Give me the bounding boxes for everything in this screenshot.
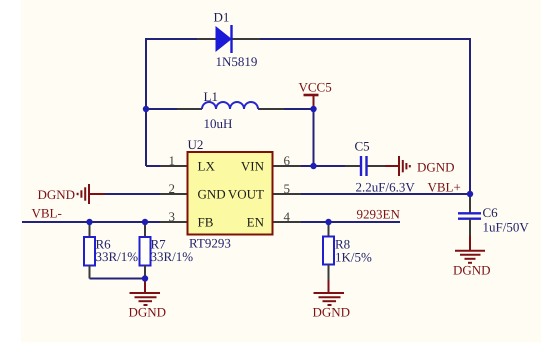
- wire pin5 to VBL+: [300, 193, 470, 195]
- resistor R6: [84, 222, 138, 279]
- resistor R8: [323, 222, 372, 280]
- svg-text:VBL+: VBL+: [428, 180, 461, 195]
- capacitor C6: [458, 194, 529, 236]
- junction (VBL+ / C6): [467, 191, 473, 197]
- inductor L1 left pin: [177, 108, 202, 110]
- svg-text:DGND: DGND: [417, 160, 455, 175]
- svg-text:L1: L1: [204, 89, 218, 104]
- wire pin2 from DGND: [105, 193, 161, 195]
- svg-text:2.2uF/6.3V: 2.2uF/6.3V: [356, 180, 416, 195]
- wire L1 left: [146, 108, 177, 110]
- junction (R7 / VBL- wire): [142, 219, 148, 225]
- svg-text:9293EN: 9293EN: [357, 207, 401, 222]
- junction (VCC5 / L1): [310, 106, 316, 112]
- svg-text:FB: FB: [198, 215, 214, 230]
- wire right vertical: [469, 38, 471, 194]
- svg-text:6: 6: [284, 153, 291, 168]
- svg-text:VBL-: VBL-: [32, 206, 62, 221]
- svg-text:DGND: DGND: [313, 305, 351, 320]
- svg-text:C5: C5: [355, 139, 370, 154]
- inductor L1 right pin: [258, 108, 284, 110]
- svg-text:D1: D1: [214, 10, 230, 25]
- pin stubs (black): [160, 39, 385, 222]
- wire top horizontal (anode side): [146, 38, 197, 40]
- pin 4 stub: [273, 221, 302, 223]
- power port DGND (left, at pin 2): [78, 184, 105, 204]
- svg-text:2: 2: [169, 181, 176, 196]
- junction (R8 / pin4 wire): [325, 219, 331, 225]
- junction (L1 / left vertical): [143, 106, 149, 112]
- ground DGND (below R6/R7): [130, 279, 161, 306]
- svg-text:GND: GND: [198, 187, 226, 202]
- svg-text:C6: C6: [483, 205, 499, 220]
- capacitor C5 right pin: [367, 165, 386, 167]
- svg-text:4: 4: [284, 209, 291, 224]
- junction (VCC branch / pin6): [310, 163, 316, 169]
- svg-text:1uF/50V: 1uF/50V: [483, 220, 530, 235]
- resistor R7: [140, 222, 194, 279]
- wire L1 right to VCC junction: [284, 108, 314, 110]
- power port VCC5: [299, 80, 332, 110]
- inductor L1: [202, 89, 258, 131]
- wire left vertical: [145, 38, 147, 166]
- wire top horizontal (cathode side): [260, 38, 470, 40]
- svg-text:DGND: DGND: [38, 187, 76, 202]
- pin 3 stub: [160, 221, 188, 223]
- op-amp U2 body: [188, 137, 273, 251]
- svg-text:U2: U2: [188, 137, 204, 152]
- diode D1 anode pin: [197, 38, 216, 40]
- ground DGND (below C6): [455, 236, 485, 263]
- ground DGND (below R8): [314, 280, 345, 305]
- junction (R6 / VBL- wire): [86, 219, 92, 225]
- wire VBL- to pin3: [22, 221, 161, 223]
- svg-text:DGND: DGND: [129, 305, 167, 320]
- svg-text:1K/5%: 1K/5%: [335, 250, 372, 265]
- wire pin1 to LX: [146, 165, 161, 167]
- wire top: anode net from left vertical to right vertical: [22, 38, 470, 279]
- svg-text:3: 3: [169, 209, 176, 224]
- svg-text:1: 1: [169, 153, 176, 168]
- svg-text:10uH: 10uH: [204, 116, 233, 131]
- svg-text:LX: LX: [198, 159, 216, 174]
- svg-text:RT9293: RT9293: [189, 236, 231, 251]
- wire VCC junction down to pin6: [313, 109, 315, 166]
- wire pin6 to C5: [300, 165, 345, 167]
- pin 6 stub: [273, 165, 302, 167]
- pin 5 stub: [273, 193, 302, 195]
- pin 1 stub: [160, 165, 188, 167]
- ground DGND (right of C5, rotated): [385, 156, 410, 176]
- capacitor C5: [355, 139, 416, 195]
- diode D1 cathode pin: [232, 38, 261, 40]
- svg-text:5: 5: [284, 181, 291, 196]
- svg-text:DGND: DGND: [453, 263, 491, 278]
- junction (R6R7 bottom / ground): [142, 275, 148, 281]
- wire R6 bottom to R7 bottom: [90, 278, 146, 280]
- svg-text:33R/1%: 33R/1%: [151, 249, 194, 264]
- capacitor C5 left pin: [345, 165, 361, 167]
- pin 2 stub: [160, 193, 188, 195]
- svg-text:1N5819: 1N5819: [216, 54, 258, 69]
- svg-text:33R/1%: 33R/1%: [96, 249, 139, 264]
- diode D1: [214, 10, 258, 70]
- svg-text:VIN: VIN: [241, 159, 265, 174]
- svg-text:EN: EN: [247, 215, 265, 230]
- svg-text:VOUT: VOUT: [228, 187, 264, 202]
- wire pin4 to 9293EN: [300, 221, 400, 223]
- svg-text:VCC5: VCC5: [299, 80, 332, 95]
